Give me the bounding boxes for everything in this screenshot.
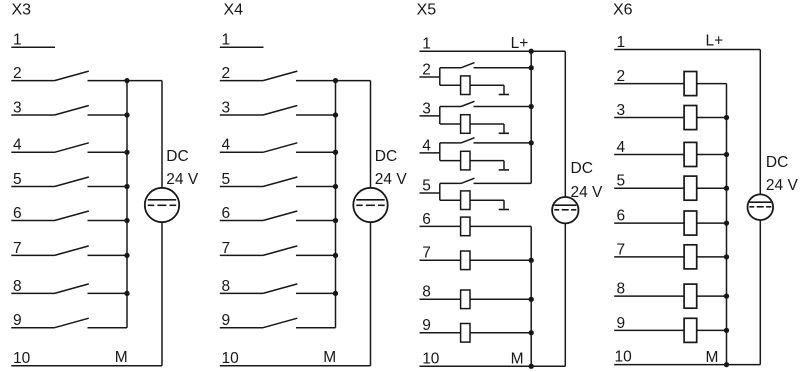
svg-text:4: 4: [617, 139, 626, 156]
X3 common bus: [126, 81, 128, 328]
X6 pin 10 wire M: [614, 364, 760, 366]
svg-text:4: 4: [422, 137, 431, 154]
X5 pin 2 branch split: [439, 68, 441, 85]
X4 pin 4 wire right: [296, 151, 336, 153]
svg-text:8: 8: [13, 278, 22, 295]
X5 actuator row 4 bar: [499, 169, 509, 171]
X4 pin 7 wire right: [296, 254, 336, 256]
X5 pin 5 wire top: [440, 182, 461, 184]
svg-text:2: 2: [422, 61, 431, 78]
X4 switch row 2 blade: [263, 71, 297, 81]
X6 pin 5 wire right: [697, 187, 727, 189]
X6 pin 2 wire right: [697, 83, 727, 85]
svg-text:X6: X6: [613, 2, 633, 19]
X3 pin 5 wire left: [11, 186, 54, 188]
X5 switch row 4 blade: [461, 138, 475, 143]
X6 pin 8 wire right: [697, 295, 727, 297]
X3 switch row 2 blade: [55, 71, 89, 81]
X3 wire bus to source top: [127, 80, 162, 82]
svg-text:7: 7: [13, 240, 22, 257]
X3 junction row 3: [124, 112, 129, 117]
X3 pin 1 wire stub: [11, 46, 55, 48]
X5 pin 6 wire left: [420, 225, 461, 227]
X5 actuator row 5 drop: [503, 200, 505, 209]
X5 pin 2 wire stub: [420, 76, 440, 78]
X5 junction row 1: [529, 49, 534, 54]
X5 coil row 6: [461, 217, 470, 236]
X5 pin 5 wire coil: [440, 199, 461, 201]
X6 coil row 2: [684, 72, 697, 96]
X4 pin 9 wire left: [220, 327, 263, 329]
X5 pin 4 wire after coil: [470, 160, 504, 162]
X5 coil row 2: [461, 76, 470, 95]
X3 pin 3 wire left: [11, 114, 54, 116]
X3 junction row 6: [124, 218, 129, 223]
svg-text:9: 9: [422, 317, 431, 334]
X4 wire bus to source top: [336, 80, 371, 82]
X6 junction row 5: [724, 186, 729, 191]
X5 actuator row 2 bar: [499, 94, 509, 96]
svg-text:1: 1: [13, 32, 22, 49]
X5 pin 8 wire right: [470, 298, 531, 300]
X3 switch row 5 blade: [55, 177, 89, 187]
X5 pin 6 wire right: [470, 225, 531, 227]
X6 coil row 4: [684, 142, 697, 166]
X5 wire source to M: [564, 223, 566, 366]
X3 pin 4 wire right: [88, 151, 128, 153]
svg-text:X3: X3: [12, 2, 32, 19]
X6 pin 6 wire left: [614, 222, 684, 224]
svg-text:8: 8: [422, 284, 431, 301]
X3 switch row 8 blade: [55, 284, 89, 294]
X4 junction row 3: [333, 112, 338, 117]
X3 pin 8 wire right: [88, 292, 128, 294]
X4 switch row 5 blade: [263, 177, 297, 187]
X3 switch row 9 blade: [55, 318, 89, 328]
svg-text:6: 6: [422, 211, 431, 228]
X5 junction row 2: [529, 65, 534, 70]
svg-text:5: 5: [617, 173, 626, 190]
X5 junction row 4: [529, 140, 534, 145]
svg-text:3: 3: [422, 100, 431, 117]
X5 pin 1 wire L+: [420, 50, 566, 52]
X4 pin 2 wire right: [296, 80, 336, 82]
X5 pin 3 wire coil: [440, 123, 461, 125]
X4 pin 7 wire left: [220, 254, 263, 256]
svg-text:10: 10: [615, 349, 633, 366]
X5 pin 3 branch split: [439, 107, 441, 125]
X5 pin 3 wire top: [440, 106, 461, 108]
X5 pin 2 wire coil: [440, 84, 461, 86]
X4 pin 9 wire right: [296, 327, 336, 329]
X3 wire source to M: [161, 222, 163, 366]
X6 DC source: [748, 194, 774, 220]
svg-text:DC: DC: [766, 154, 788, 171]
X6 pin 3 wire left: [614, 117, 684, 119]
X5 actuator row 2 drop: [503, 85, 505, 94]
X5 pin 3 wire to bus: [474, 106, 532, 108]
X5 pin 8 wire left: [420, 298, 461, 300]
X5 coil row 8: [461, 290, 470, 309]
X3 pin 2 wire left: [11, 80, 54, 82]
X4 wire source to M: [370, 222, 372, 366]
X6 junction row 6: [724, 220, 729, 225]
X6 coil row 7: [684, 245, 697, 269]
X6 junction row 4: [724, 152, 729, 157]
X5 upper bus: [530, 51, 532, 183]
svg-text:2: 2: [222, 65, 231, 82]
X3 junction row 8: [124, 291, 129, 296]
X6 pin 9 wire left: [614, 329, 684, 331]
X5 coil row 3: [461, 115, 470, 134]
X3 DC source: [145, 188, 179, 222]
svg-text:4: 4: [13, 137, 22, 154]
svg-text:M: M: [115, 349, 128, 366]
X5 actuator row 3 bar: [499, 132, 509, 134]
X4 pin 3 wire right: [296, 114, 336, 116]
X6 junction row 9: [724, 328, 729, 333]
X5 pin 10 wire M: [420, 365, 566, 367]
svg-text:1: 1: [617, 34, 626, 51]
X5 pin 4 wire stub: [420, 152, 440, 154]
X6 junction row 7: [724, 254, 729, 259]
X3 pin 10 wire M: [11, 365, 162, 367]
X5 pin 4 branch split: [439, 143, 441, 161]
X4 pin 10 wire M: [220, 365, 371, 367]
svg-text:X5: X5: [417, 2, 437, 19]
svg-text:10: 10: [222, 350, 240, 367]
X6 wire source drop: [759, 50, 761, 195]
X3 pin 6 wire left: [11, 220, 54, 222]
X3 pin 2 wire right: [88, 80, 128, 82]
X6 coil row 8: [684, 284, 697, 308]
X5 actuator row 5 bar: [499, 209, 509, 211]
X5 pin 4 wire to bus: [474, 142, 532, 144]
X5 actuator row 3 drop: [503, 124, 505, 133]
X5 pin 5 wire after coil: [470, 199, 504, 201]
svg-text:L+: L+: [511, 35, 529, 52]
X4 junction row 4: [333, 150, 338, 155]
X5 pin 9 wire left: [420, 332, 461, 334]
X6 coil row 5: [684, 176, 697, 200]
X5 junction row 7: [529, 258, 534, 263]
X5 pin 7 wire left: [420, 259, 461, 261]
X6 wire source to M: [759, 220, 761, 365]
svg-text:9: 9: [222, 312, 231, 329]
X5 switch row 3 blade: [461, 101, 475, 106]
X6 pin 9 wire right: [697, 329, 727, 331]
X5 junction row 8: [529, 297, 534, 302]
X5 pin 2 wire top: [440, 67, 461, 69]
X3 switch row 7 blade: [55, 246, 89, 256]
X6 pin 7 wire right: [697, 256, 727, 258]
X5 lower bus: [530, 226, 532, 366]
X6 junction row 8: [724, 293, 729, 298]
X5 coil row 9: [461, 324, 470, 343]
X3 junction row 4: [124, 150, 129, 155]
svg-text:M: M: [323, 349, 336, 366]
X4 pin 8 wire right: [296, 292, 336, 294]
X6 pin 4 wire left: [614, 154, 684, 156]
X4 pin 8 wire left: [220, 292, 263, 294]
X6 pin 4 wire right: [697, 154, 727, 156]
X4 junction row 6: [333, 218, 338, 223]
svg-text:5: 5: [13, 171, 22, 188]
X4 junction row 7: [333, 253, 338, 258]
X4 junction row 5: [333, 184, 338, 189]
svg-text:4: 4: [222, 137, 231, 154]
X5 coil row 7: [461, 251, 470, 270]
X4 pin 5 wire right: [296, 186, 336, 188]
svg-text:DC: DC: [375, 148, 397, 165]
X5 pin 5 wire stub: [420, 192, 440, 194]
svg-text:10: 10: [13, 350, 31, 367]
X4 junction row 8: [333, 291, 338, 296]
X4 pin 6 wire right: [296, 220, 336, 222]
X4 switch row 4 blade: [263, 143, 297, 153]
X5 pin 2 wire after coil: [470, 84, 504, 86]
svg-text:3: 3: [617, 102, 626, 119]
X3 switch row 3 blade: [55, 106, 89, 116]
X6 coil row 6: [684, 211, 697, 235]
svg-text:1: 1: [222, 32, 231, 49]
X6 junction row 10: [724, 362, 729, 367]
svg-text:6: 6: [617, 208, 626, 225]
svg-text:1: 1: [422, 36, 431, 53]
X3 pin 9 wire right: [88, 327, 128, 329]
X6 junction row 3: [724, 115, 729, 120]
X4 pin 1 wire stub: [220, 46, 264, 48]
X6 common bus: [726, 84, 728, 365]
X4 switch row 8 blade: [263, 284, 297, 294]
svg-text:10: 10: [422, 350, 440, 367]
X5 pin 3 wire stub: [420, 115, 440, 117]
svg-text:8: 8: [617, 281, 626, 298]
X3 pin 7 wire right: [88, 254, 128, 256]
X4 wire source drop: [370, 81, 372, 188]
X5 pin 4 wire top: [440, 142, 461, 144]
X5 wire source drop: [564, 51, 566, 197]
X6 pin 3 wire right: [697, 117, 727, 119]
X5 pin 2 wire to bus: [474, 67, 532, 69]
svg-text:8: 8: [222, 278, 231, 295]
X3 wire source drop: [161, 81, 163, 188]
X3 pin 4 wire left: [11, 151, 54, 153]
X6 coil row 9: [684, 318, 697, 342]
X3 switch row 4 blade: [55, 143, 89, 153]
X4 DC source: [353, 188, 387, 222]
X5 pin 7 wire right: [470, 259, 531, 261]
svg-text:2: 2: [13, 65, 22, 82]
X5 junction row 10: [529, 364, 534, 369]
X4 pin 5 wire left: [220, 186, 263, 188]
X3 switch row 6 blade: [55, 211, 89, 221]
svg-text:7: 7: [222, 240, 231, 257]
X4 junction row 2: [333, 78, 338, 83]
X3 pin 6 wire right: [88, 220, 128, 222]
svg-text:M: M: [511, 350, 524, 367]
svg-text:24 V: 24 V: [766, 177, 799, 194]
svg-text:6: 6: [222, 205, 231, 222]
svg-text:X4: X4: [224, 2, 244, 19]
X5 pin 5 branch split: [439, 183, 441, 200]
X5 actuator row 4 drop: [503, 161, 505, 170]
svg-text:3: 3: [13, 99, 22, 116]
X5 pin 9 wire right: [470, 332, 531, 334]
X4 common bus: [335, 81, 337, 328]
svg-text:2: 2: [617, 68, 626, 85]
X3 pin 8 wire left: [11, 292, 54, 294]
X4 switch row 6 blade: [263, 211, 297, 221]
svg-text:24 V: 24 V: [571, 184, 604, 201]
X4 pin 4 wire left: [220, 151, 263, 153]
X5 pin 5 wire to bus: [474, 182, 532, 184]
X3 junction row 2: [124, 78, 129, 83]
svg-text:7: 7: [617, 241, 626, 258]
X4 pin 6 wire left: [220, 220, 263, 222]
X4 switch row 7 blade: [263, 246, 297, 256]
svg-text:DC: DC: [166, 148, 188, 165]
svg-text:L+: L+: [706, 33, 724, 50]
X5 pin 4 wire coil: [440, 160, 461, 162]
X6 pin 2 wire left: [614, 83, 684, 85]
svg-text:6: 6: [13, 205, 22, 222]
X3 pin 5 wire right: [88, 186, 128, 188]
X4 switch row 3 blade: [263, 106, 297, 116]
svg-text:M: M: [706, 349, 719, 366]
X5 pin 3 wire after coil: [470, 123, 504, 125]
svg-text:DC: DC: [571, 160, 593, 177]
X5 coil row 5: [461, 191, 470, 210]
X5 coil row 4: [461, 151, 470, 170]
X3 junction row 7: [124, 253, 129, 258]
X6 pin 6 wire right: [697, 222, 727, 224]
X6 pin 5 wire left: [614, 187, 684, 189]
X6 pin 8 wire left: [614, 295, 684, 297]
X3 pin 9 wire left: [11, 327, 54, 329]
X3 pin 7 wire left: [11, 254, 54, 256]
svg-text:5: 5: [422, 177, 431, 194]
svg-text:24 V: 24 V: [166, 171, 199, 188]
X3 junction row 5: [124, 184, 129, 189]
svg-text:24 V: 24 V: [375, 171, 408, 188]
X5 DC source: [552, 197, 578, 223]
X5 junction row 3: [529, 104, 534, 109]
X4 pin 3 wire left: [220, 114, 263, 116]
X4 switch row 9 blade: [263, 318, 297, 328]
X6 coil row 3: [684, 106, 697, 130]
X6 pin 7 wire left: [614, 256, 684, 258]
svg-text:3: 3: [222, 99, 231, 116]
X5 switch row 5 blade: [461, 178, 475, 183]
X3 pin 3 wire right: [88, 114, 128, 116]
svg-text:7: 7: [422, 245, 431, 262]
svg-text:9: 9: [13, 312, 22, 329]
X5 switch row 2 blade: [461, 63, 475, 68]
X5 junction row 9: [529, 330, 534, 335]
svg-text:9: 9: [617, 315, 626, 332]
svg-text:5: 5: [222, 171, 231, 188]
X4 pin 2 wire left: [220, 80, 263, 82]
X6 pin 1 wire L+: [614, 49, 760, 51]
